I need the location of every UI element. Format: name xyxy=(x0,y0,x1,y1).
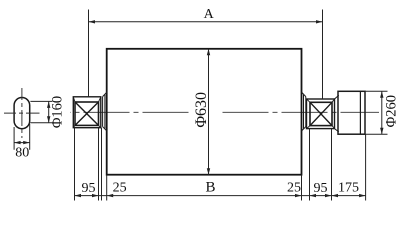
dim A line xyxy=(89,21,323,23)
svg-text:80: 80 xyxy=(15,146,29,161)
bottom arrows 95 right xyxy=(310,194,317,197)
right bearing cross xyxy=(310,102,332,125)
dim 80 extension lines xyxy=(14,124,30,150)
drum shell (pulley body) xyxy=(107,49,302,175)
bottom chain dimension line xyxy=(75,195,366,197)
svg-text:Φ260: Φ260 xyxy=(384,95,400,127)
right hub chamfer diagonals xyxy=(301,92,305,131)
svg-text:95: 95 xyxy=(314,181,328,196)
left shaft end view: stadium (circle with flats 80) xyxy=(14,98,30,129)
left bearing square xyxy=(75,102,99,125)
svg-text:95: 95 xyxy=(82,181,96,196)
dim Φ260 extension lines xyxy=(365,91,388,134)
right bearing housing xyxy=(307,99,335,129)
svg-text:25: 25 xyxy=(113,181,127,196)
dim Φ260 line xyxy=(381,91,383,134)
svg-text:25: 25 xyxy=(287,181,301,196)
main horizontal centerline xyxy=(70,111,189,113)
bottom arrows 175 xyxy=(332,194,339,197)
bottom chain extension lines xyxy=(75,128,366,201)
dim Φ160 arrows xyxy=(47,101,50,108)
svg-text:B: B xyxy=(205,179,215,195)
dim A arrows xyxy=(89,20,96,23)
end view horizontal centerline xyxy=(4,112,40,114)
left hub chamfer diagonals xyxy=(103,92,107,131)
svg-text:Φ160: Φ160 xyxy=(49,96,65,128)
left hub labyrinth rings between bearing and drum face xyxy=(103,95,105,129)
right bearing square xyxy=(310,102,332,125)
dim A extension lines xyxy=(89,10,323,99)
dim 80 line xyxy=(14,142,30,144)
left bearing cross xyxy=(75,102,99,125)
dim Φ630 line xyxy=(208,49,210,175)
svg-text:175: 175 xyxy=(338,181,359,196)
coupling / brake drum xyxy=(338,91,365,134)
shaft step chamfers between right bearing and coupling xyxy=(335,95,339,132)
dim Φ260 arrows xyxy=(380,91,383,98)
coupling rim line right xyxy=(359,91,361,134)
dim Φ630 arrows xyxy=(207,49,210,56)
dim Φ160 line xyxy=(48,101,50,122)
dim Φ160 extension lines xyxy=(30,101,52,122)
svg-text:Φ630: Φ630 xyxy=(193,92,210,128)
right hub labyrinth rings between drum face and bearing xyxy=(304,95,306,129)
end view vertical centerline xyxy=(21,88,23,138)
right bearing corner seats xyxy=(307,99,335,129)
bottom arrows B xyxy=(107,194,114,197)
left bearing corner seats xyxy=(73,97,101,128)
left bearing housing xyxy=(73,97,101,128)
dim 80 arrows xyxy=(14,141,21,144)
bottom arrows 95 left xyxy=(75,194,82,197)
svg-text:A: A xyxy=(204,7,215,22)
